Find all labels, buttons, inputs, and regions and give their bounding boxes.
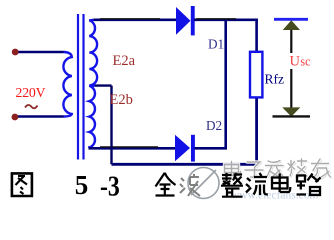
- wire: top-left terminal to primary top: [15, 51, 64, 54]
- terminal dot bottom: [12, 114, 19, 121]
- wire black overlay bottom: [100, 146, 158, 148]
- caption CJK lu: [297, 174, 321, 196]
- diode D1: [176, 6, 195, 35]
- Usc top bar: [274, 18, 308, 21]
- svg-text:Rfz: Rfz: [265, 72, 285, 87]
- wire: secondary top to D1 anode (top rail left): [94, 18, 177, 21]
- caption CJK quan: [156, 173, 176, 196]
- svg-text:E2a: E2a: [113, 53, 136, 69]
- watermark text dianzifashaoyou: [225, 159, 332, 179]
- wire black overlay top rail: [100, 18, 160, 20]
- wire: D1 cathode along top rail to resistor corner: [194, 20, 258, 52]
- diode D2: [175, 135, 195, 162]
- svg-text:-3: -3: [100, 171, 120, 202]
- watermark circle: [188, 168, 219, 199]
- caption CJK bo: [180, 174, 200, 196]
- caption CJK tu (figure): [12, 173, 32, 196]
- svg-text:Usc: Usc: [290, 54, 312, 70]
- Usc down arrow: [273, 69, 311, 117]
- caption CJK zheng: [221, 173, 243, 197]
- svg-text:D1: D1: [208, 37, 224, 52]
- Usc up arrow: [283, 20, 300, 53]
- transformer core: [78, 14, 84, 160]
- wire: bottom rail: [112, 97, 259, 164]
- svg-text:220V: 220V: [16, 85, 46, 100]
- terminal dot top: [12, 49, 19, 56]
- resistor Rfz: [250, 52, 262, 98]
- label ~: [25, 105, 38, 108]
- transformer secondary winding E2a: [89, 20, 97, 86]
- wire black overlay after D1: [196, 18, 236, 20]
- wire: secondary bottom to D2 anode: [89, 147, 176, 150]
- wire: center tap: [95, 86, 112, 165]
- wire: junction down to D2 cathode: [224, 20, 227, 149]
- caption CJK liu: [246, 173, 268, 195]
- svg-text:D2: D2: [206, 118, 222, 133]
- transformer primary winding: [63, 52, 71, 117]
- wire: D2 cathode to junction: [195, 147, 228, 150]
- svg-text:E2b: E2b: [110, 92, 133, 108]
- wire: bottom-left terminal to primary bottom: [15, 115, 64, 118]
- transformer secondary winding E2b: [89, 86, 95, 149]
- svg-text:5: 5: [75, 170, 89, 200]
- caption CJK dian: [272, 174, 290, 193]
